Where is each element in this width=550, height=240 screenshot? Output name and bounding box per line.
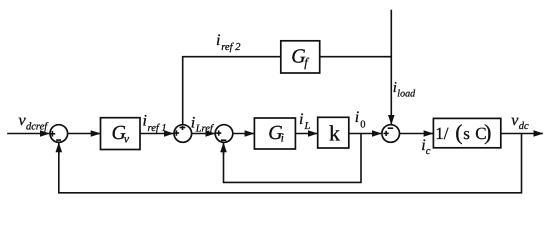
block 1/sC — [433, 118, 500, 147]
svg-text:Lref: Lref — [195, 123, 215, 134]
minus sign S1 — [56, 139, 61, 141]
label 1/sC — [435, 119, 491, 144]
svg-text:i: i — [299, 111, 303, 128]
svg-text:i: i — [355, 109, 359, 126]
wire Gf to iload node — [320, 56, 392, 58]
svg-text:k: k — [329, 120, 340, 145]
label vdcref — [19, 112, 50, 133]
label iref1 — [143, 113, 167, 135]
label Gi — [268, 122, 284, 145]
wire S1 to Gv — [68, 133, 100, 135]
svg-text:): ) — [484, 119, 491, 144]
summing junction S1 — [50, 125, 68, 143]
svg-text:dcref: dcref — [26, 122, 49, 133]
label iref2 — [216, 32, 241, 53]
block k — [318, 117, 349, 148]
svg-text:i: i — [281, 131, 284, 145]
label vdc — [511, 112, 529, 132]
summing junction S2 — [174, 125, 192, 143]
label k — [329, 120, 340, 145]
block Gf — [281, 41, 320, 73]
svg-text:ref 2: ref 2 — [221, 42, 241, 53]
svg-text:ref 1: ref 1 — [148, 123, 167, 134]
svg-text:(: ( — [455, 119, 462, 144]
label iload — [393, 80, 416, 100]
wire inner feedback branch — [224, 134, 362, 183]
svg-text:dc: dc — [519, 121, 529, 132]
label iLref — [191, 114, 215, 134]
svg-text:i: i — [191, 114, 195, 131]
svg-text:1/: 1/ — [435, 124, 449, 143]
wire Gi to k — [295, 133, 317, 135]
label ic — [421, 137, 431, 157]
svg-text:L: L — [304, 121, 311, 132]
summing junction S4 — [382, 125, 400, 143]
svg-text:s: s — [463, 124, 470, 143]
plus sign S1 — [50, 131, 56, 137]
plus sign S3 — [216, 131, 221, 136]
svg-text:load: load — [397, 89, 416, 100]
minus sign S3 — [221, 139, 226, 141]
minus sign S4 — [388, 127, 394, 129]
svg-text:c: c — [426, 146, 431, 157]
plus sign S4 — [384, 131, 389, 136]
plus sign S2 top — [180, 126, 186, 130]
wire iload vertical — [390, 10, 392, 125]
wire outer feedback branch — [59, 134, 522, 193]
svg-text:i: i — [216, 32, 220, 49]
label Gv — [112, 122, 130, 145]
svg-text:0: 0 — [360, 120, 365, 131]
block Gv — [101, 118, 141, 150]
label i0 — [355, 109, 366, 131]
wire Gv to S2 — [140, 133, 173, 135]
wire iref2 horizontal to Gf — [183, 57, 281, 125]
wire S4 to block 1/sC — [400, 133, 433, 135]
wire S3 to Gi — [233, 133, 254, 135]
svg-text:v: v — [124, 131, 130, 145]
svg-text:f: f — [304, 55, 309, 69]
svg-text:i: i — [143, 113, 147, 130]
wire k to S4 — [349, 133, 381, 135]
label iL — [299, 111, 311, 132]
wire output vdc — [501, 133, 543, 135]
summing junction S3 — [215, 125, 233, 143]
wire S2 to S3 — [192, 133, 215, 135]
block Gi — [254, 118, 295, 149]
plus sign S2 left — [174, 130, 179, 135]
wire input vdcref — [7, 133, 49, 135]
label Gf — [291, 46, 309, 70]
